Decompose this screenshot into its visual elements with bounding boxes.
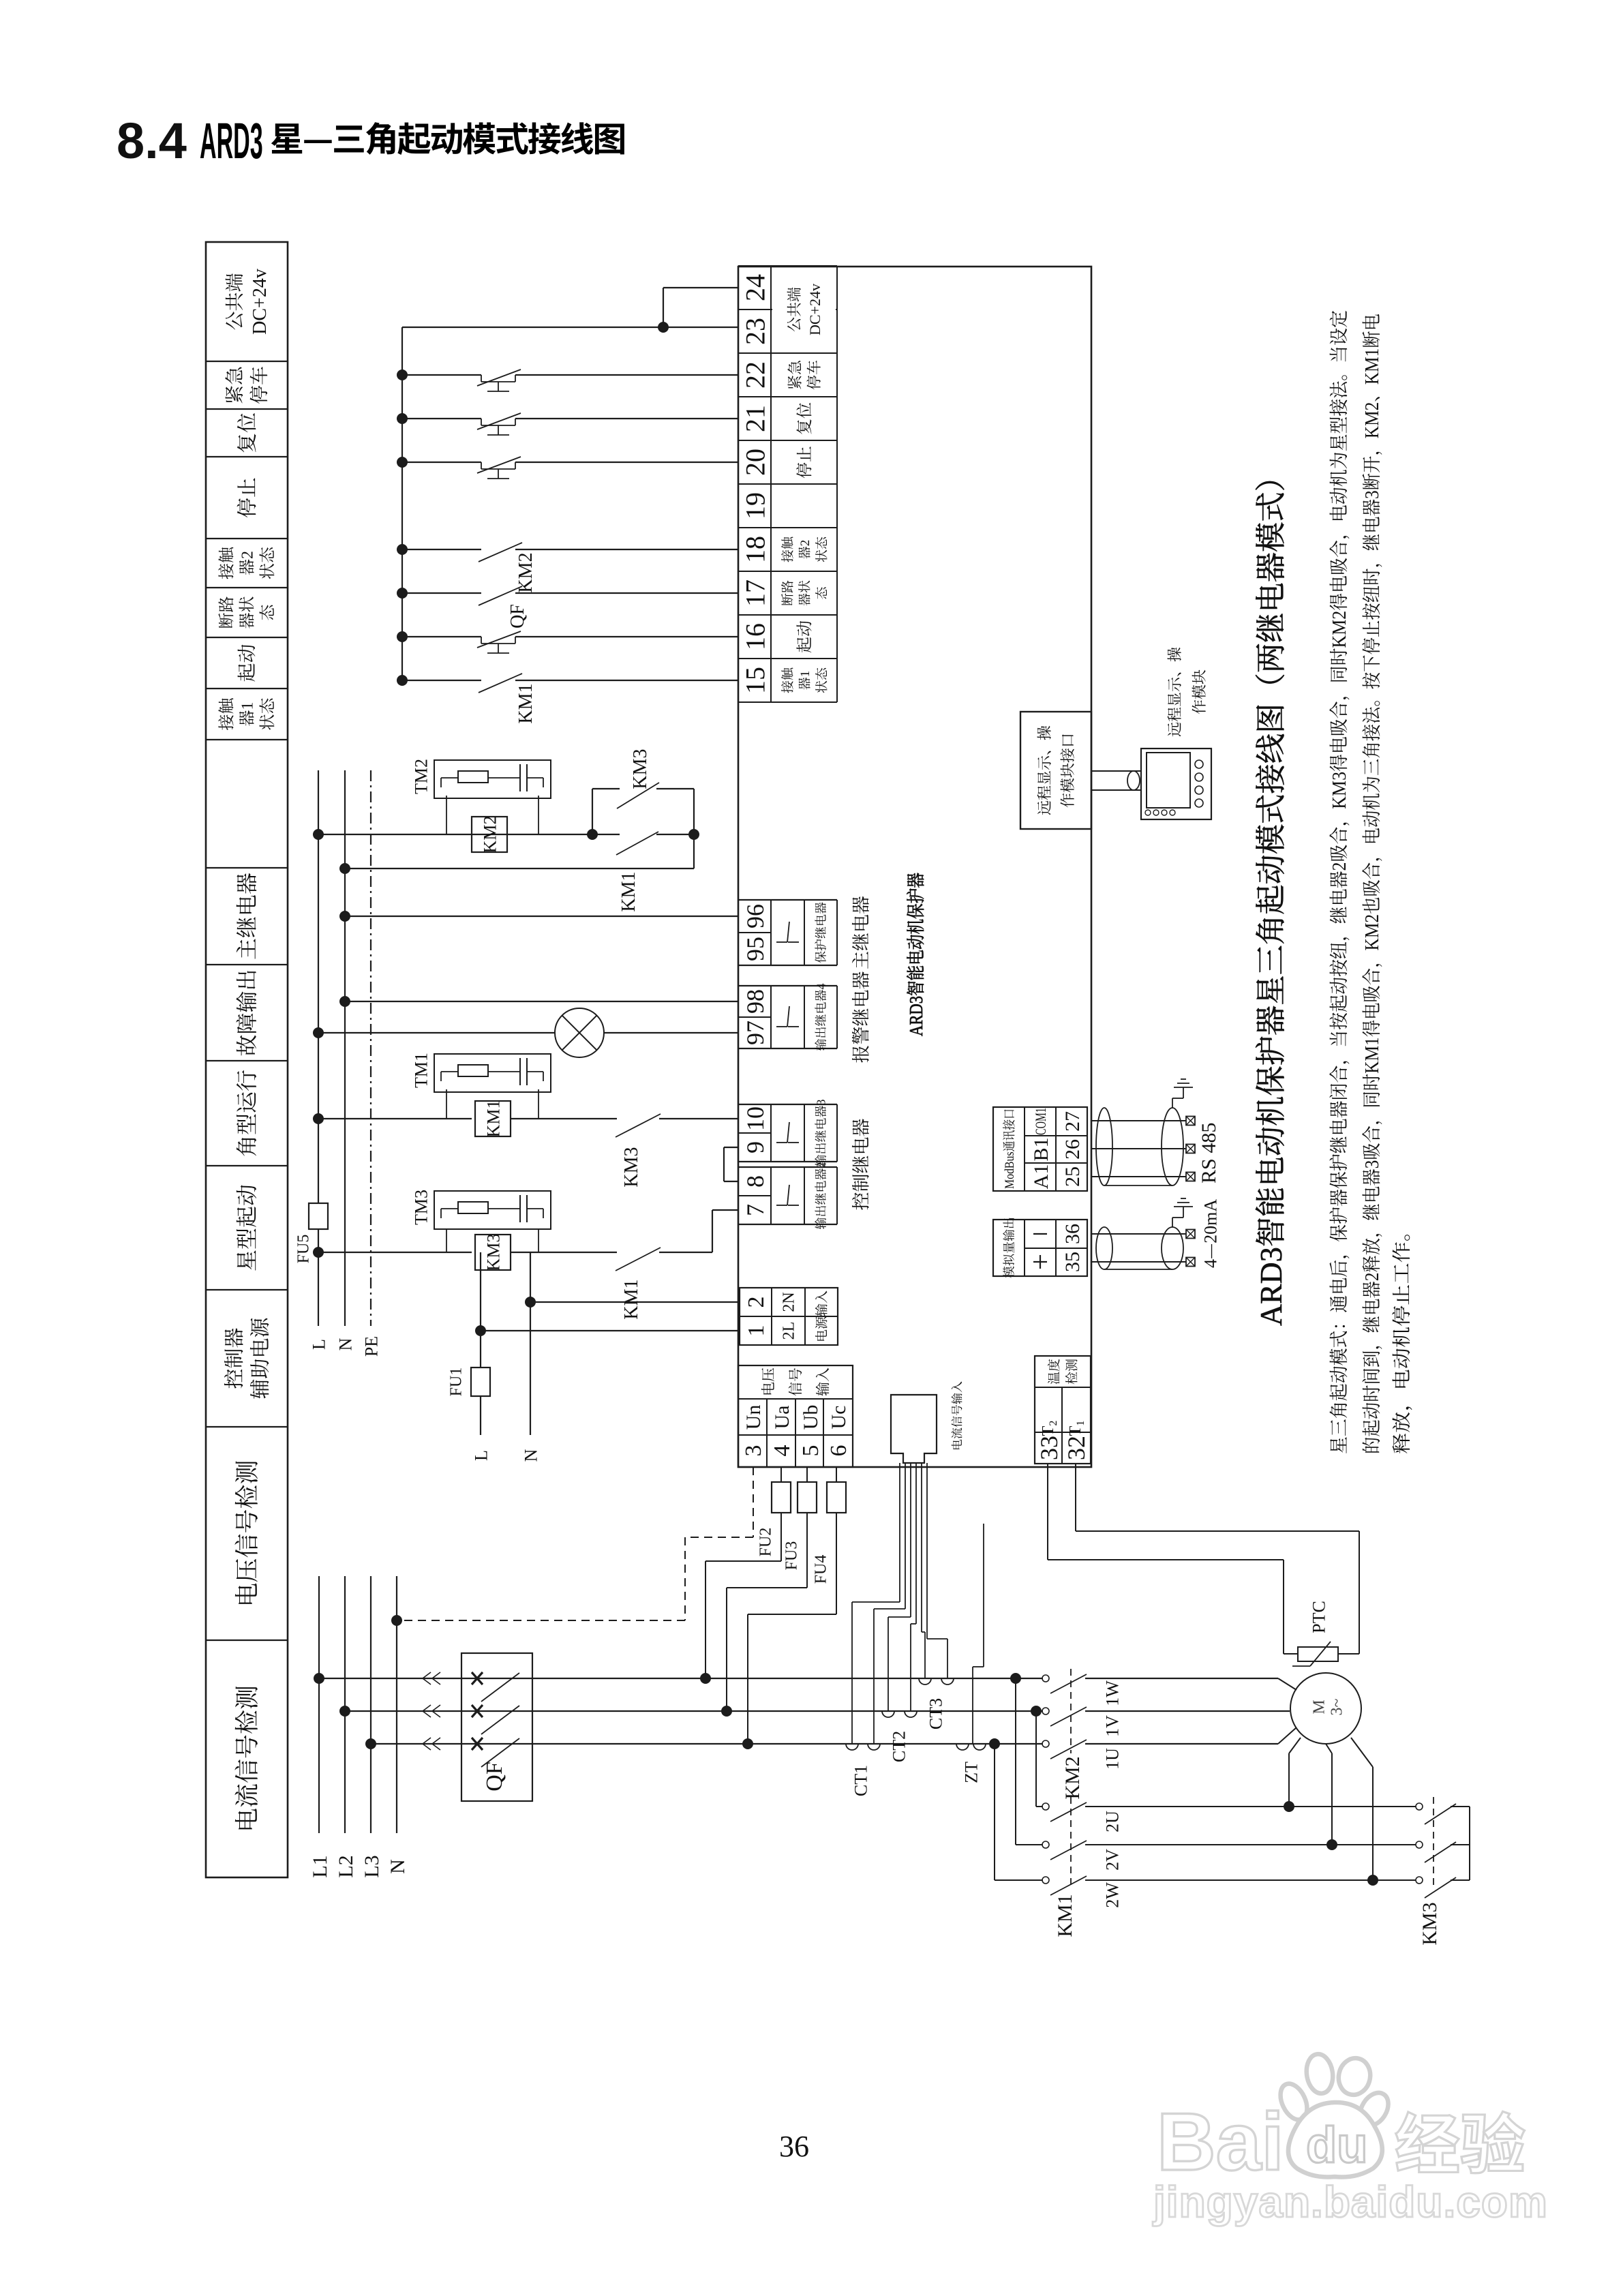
svg-text:N: N <box>380 1859 410 1874</box>
svg-text:ARD3智能电动机保护器星三角起动模式接线图（两继电器模式）: ARD3智能电动机保护器星三角起动模式接线图（两继电器模式） <box>1246 462 1290 1326</box>
svg-text:COM1: COM1 <box>1029 1108 1050 1135</box>
svg-text:2U: 2U <box>1098 1811 1123 1832</box>
svg-text:Uc: Uc <box>821 1406 851 1430</box>
svg-text:KM3: KM3 <box>625 749 652 789</box>
svg-text:状态: 状态 <box>254 546 278 579</box>
svg-text:主继电器: 主继电器 <box>230 873 262 960</box>
svg-text:1W: 1W <box>1098 1680 1123 1706</box>
svg-text:控制继电器: 控制继电器 <box>847 1119 873 1211</box>
svg-text:作模块接口: 作模块接口 <box>1057 733 1078 808</box>
svg-text:L: L <box>467 1450 492 1461</box>
svg-text:23: 23 <box>733 318 772 345</box>
svg-text:20: 20 <box>733 449 772 476</box>
svg-text:FU3: FU3 <box>778 1541 802 1571</box>
svg-text:状态: 状态 <box>812 667 830 693</box>
svg-text:CT1: CT1 <box>847 1765 872 1796</box>
svg-text:2L: 2L <box>775 1322 799 1340</box>
svg-text:ARD3: ARD3 <box>200 113 263 169</box>
svg-text:Ub: Ub <box>793 1405 823 1430</box>
svg-text:状态: 状态 <box>812 536 830 562</box>
svg-text:Un: Un <box>736 1405 766 1430</box>
svg-text:远程显示、操: 远程显示、操 <box>1164 647 1185 737</box>
svg-text:星型起动: 星型起动 <box>230 1184 262 1271</box>
svg-text:紧急: 紧急 <box>220 365 247 404</box>
svg-text:7: 7 <box>736 1204 771 1216</box>
svg-text:器1: 器1 <box>795 671 813 691</box>
svg-text:DC+24v: DC+24v <box>245 269 272 335</box>
svg-text:QF: QF <box>475 1762 509 1791</box>
svg-text:角型运行: 角型运行 <box>230 1070 262 1157</box>
svg-text:起动: 起动 <box>232 644 260 682</box>
svg-text:电压信号检测: 电压信号检测 <box>228 1460 263 1607</box>
svg-text:L: L <box>305 1339 330 1350</box>
svg-text:Ua: Ua <box>765 1406 795 1430</box>
svg-text:10: 10 <box>736 1106 771 1131</box>
svg-text:N: N <box>517 1449 542 1462</box>
svg-text:停止: 停止 <box>791 446 815 479</box>
svg-text:KM1: KM1 <box>479 1100 504 1138</box>
svg-text:KM1: KM1 <box>613 871 641 911</box>
svg-text:接触: 接触 <box>778 667 796 693</box>
svg-text:经验: 经验 <box>1395 2092 1526 2187</box>
svg-text:jingyan.baidu.com: jingyan.baidu.com <box>1153 2177 1548 2226</box>
svg-text:36: 36 <box>1055 1224 1085 1244</box>
svg-text:FU2: FU2 <box>752 1528 776 1557</box>
svg-text:状态: 状态 <box>254 697 278 731</box>
svg-text:态: 态 <box>254 604 278 621</box>
svg-text:16: 16 <box>733 623 772 650</box>
svg-text:温度: 温度 <box>1044 1359 1063 1385</box>
svg-text:QF: QF <box>502 604 530 629</box>
svg-text:TM3: TM3 <box>407 1190 432 1225</box>
svg-text:1: 1 <box>737 1325 770 1337</box>
svg-text:18: 18 <box>733 536 772 563</box>
svg-text:辅助电源: 辅助电源 <box>243 1317 273 1400</box>
svg-text:器状: 器状 <box>795 580 813 606</box>
svg-text:输出继电器3: 输出继电器3 <box>811 1100 829 1167</box>
svg-text:CT2: CT2 <box>885 1731 910 1762</box>
svg-text:KM3: KM3 <box>479 1234 504 1271</box>
svg-text:信号: 信号 <box>785 1368 806 1396</box>
svg-text:态: 态 <box>812 586 830 600</box>
svg-text:KM2: KM2 <box>476 816 501 854</box>
svg-text:17: 17 <box>733 579 772 607</box>
svg-text:1U: 1U <box>1098 1748 1123 1770</box>
svg-text:4—20mA: 4—20mA <box>1196 1199 1222 1268</box>
svg-text:故障输出: 故障输出 <box>230 969 262 1056</box>
svg-text:公共端: 公共端 <box>783 287 804 332</box>
svg-text:Bai: Bai <box>1157 2096 1284 2188</box>
svg-text:ARD3智能电动机保护器: ARD3智能电动机保护器 <box>901 873 928 1036</box>
svg-text:停车: 停车 <box>245 366 272 404</box>
svg-text:远程显示、操: 远程显示、操 <box>1033 725 1055 815</box>
svg-text:KM3: KM3 <box>1412 1902 1442 1945</box>
svg-text:du: du <box>1306 2117 1367 2173</box>
svg-text:25: 25 <box>1055 1166 1085 1187</box>
svg-text:星三角起动模式：通电后，保护器保护继电器闭合，当按起动按纽，: 星三角起动模式：通电后，保护器保护继电器闭合，当按起动按纽，继电器2吸合，KM3… <box>1324 310 1352 1454</box>
svg-text:A1: A1 <box>1024 1164 1054 1190</box>
svg-text:公共端: 公共端 <box>220 273 247 330</box>
svg-text:KM1: KM1 <box>616 1279 643 1319</box>
svg-text:6: 6 <box>819 1445 853 1457</box>
svg-text:KM2: KM2 <box>511 552 538 592</box>
svg-text:T2: T2 <box>1034 1421 1060 1436</box>
svg-text:紧急: 紧急 <box>784 359 805 390</box>
svg-text:FU5: FU5 <box>290 1235 314 1264</box>
svg-text:26: 26 <box>1055 1139 1085 1160</box>
svg-text:2V: 2V <box>1098 1849 1123 1871</box>
svg-text:TM1: TM1 <box>407 1053 432 1088</box>
svg-text:RS 485: RS 485 <box>1192 1123 1222 1183</box>
svg-text:CT3: CT3 <box>922 1698 947 1729</box>
svg-text:PTC: PTC <box>1305 1601 1330 1633</box>
svg-text:复位: 复位 <box>230 412 260 453</box>
svg-text:电源输入: 电源输入 <box>812 1290 830 1342</box>
svg-text:停止: 停止 <box>230 477 260 518</box>
svg-text:27: 27 <box>1055 1111 1085 1132</box>
svg-text:停车: 停车 <box>803 360 824 390</box>
svg-text:1V: 1V <box>1098 1715 1123 1737</box>
svg-text:释放，电动机停止工作。: 释放，电动机停止工作。 <box>1387 1220 1414 1454</box>
svg-text:36: 36 <box>779 2121 809 2165</box>
svg-text:15: 15 <box>733 667 772 694</box>
svg-text:2: 2 <box>737 1297 770 1308</box>
svg-text:模拟量输出: 模拟量输出 <box>999 1217 1017 1278</box>
svg-text:32: 32 <box>1057 1436 1092 1460</box>
svg-text:输入: 输入 <box>813 1368 833 1396</box>
svg-text:T1: T1 <box>1061 1421 1087 1436</box>
svg-text:输出继电器2: 输出继电器2 <box>811 1162 829 1230</box>
svg-text:起动: 起动 <box>791 620 815 653</box>
svg-text:KM1: KM1 <box>511 683 538 723</box>
svg-text:35: 35 <box>1055 1252 1085 1272</box>
svg-text:FU4: FU4 <box>807 1555 831 1584</box>
svg-text:98: 98 <box>736 989 771 1014</box>
svg-text:ModBus通讯接口: ModBus通讯接口 <box>999 1108 1018 1189</box>
svg-text:电压: 电压 <box>758 1368 778 1396</box>
svg-text:作模块: 作模块 <box>1188 669 1209 714</box>
svg-text:报警继电器: 报警继电器 <box>847 971 873 1063</box>
svg-text:8: 8 <box>736 1175 771 1188</box>
svg-text:DC+24v: DC+24v <box>804 284 825 335</box>
svg-text:电流信号检测: 电流信号检测 <box>228 1685 263 1832</box>
svg-text:95: 95 <box>736 937 771 961</box>
svg-text:器2: 器2 <box>795 540 813 560</box>
svg-text:PE: PE <box>357 1336 382 1357</box>
svg-text:24: 24 <box>733 274 772 301</box>
svg-text:3~: 3~ <box>1323 1698 1347 1715</box>
svg-text:2N: 2N <box>775 1292 799 1312</box>
svg-text:检测: 检测 <box>1062 1359 1080 1385</box>
svg-text:2W: 2W <box>1098 1882 1123 1908</box>
svg-text:8.4: 8.4 <box>117 112 187 169</box>
svg-text:97: 97 <box>736 1021 771 1045</box>
svg-text:输出继电器4: 输出继电器4 <box>811 984 829 1051</box>
svg-text:的起动时间到，继电器2释放，继电器3吸合，同时KM1得电吸合: 的起动时间到，继电器2释放，继电器3吸合，同时KM1得电吸合，KM2也吸合，电动… <box>1357 314 1384 1454</box>
svg-text:19: 19 <box>733 492 772 519</box>
svg-text:星—三角起动模式接线图: 星—三角起动模式接线图 <box>270 112 625 162</box>
svg-text:KM2: KM2 <box>1055 1756 1085 1799</box>
svg-text:B1: B1 <box>1024 1137 1054 1161</box>
svg-text:电流信号输入: 电流信号输入 <box>947 1381 965 1451</box>
svg-text:FU1: FU1 <box>442 1368 466 1397</box>
svg-text:N: N <box>331 1338 357 1350</box>
svg-text:接触: 接触 <box>778 536 796 562</box>
svg-text:TM2: TM2 <box>407 759 432 794</box>
svg-text:断路: 断路 <box>778 580 796 606</box>
svg-text:22: 22 <box>733 361 772 389</box>
svg-text:96: 96 <box>736 904 771 928</box>
svg-text:KM3: KM3 <box>616 1147 643 1187</box>
svg-text:KM1: KM1 <box>1048 1894 1078 1937</box>
svg-text:保护继电器: 保护继电器 <box>811 902 829 963</box>
svg-text:ZT: ZT <box>957 1762 982 1783</box>
svg-text:主继电器: 主继电器 <box>847 896 873 969</box>
svg-text:复位: 复位 <box>791 402 815 435</box>
svg-text:9: 9 <box>736 1141 771 1153</box>
svg-text:21: 21 <box>733 405 772 432</box>
